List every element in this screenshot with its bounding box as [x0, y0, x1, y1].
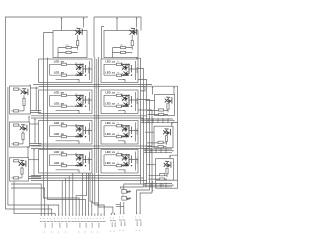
- svg-text:x: x: [68, 218, 69, 220]
- svg-text:x: x: [100, 218, 101, 220]
- svg-text:x: x: [47, 218, 48, 220]
- svg-text:xx: xx: [117, 103, 119, 105]
- svg-text:xxxxx: xxxxx: [135, 67, 138, 74]
- svg-text:xxxx: xxxx: [91, 223, 94, 229]
- svg-text:x: x: [43, 218, 44, 220]
- svg-text:xx: xx: [122, 195, 124, 197]
- svg-text:xx: xx: [117, 72, 119, 74]
- svg-text:x: x: [75, 218, 76, 220]
- svg-text:x: x: [90, 218, 91, 220]
- svg-text:xx: xx: [62, 61, 64, 63]
- svg-text:xx: xx: [62, 103, 64, 105]
- svg-text:xxxxx: xxxxx: [135, 158, 138, 165]
- svg-text:x: x: [64, 218, 65, 220]
- svg-text:xxxxx: xxxxx: [87, 67, 90, 74]
- svg-text:LED_xx: LED_xx: [105, 132, 115, 136]
- svg-text:x: x: [135, 217, 136, 219]
- svg-text:xx: xx: [62, 163, 64, 165]
- svg-text:xxxx: xxxx: [78, 223, 81, 229]
- svg-text:x: x: [57, 218, 58, 220]
- svg-text:x: x: [71, 218, 72, 220]
- svg-text:xx: xx: [117, 92, 119, 94]
- svg-text:x: x: [50, 218, 51, 220]
- svg-text:xx: xx: [62, 72, 64, 74]
- svg-text:xx: xx: [62, 123, 64, 125]
- svg-text:x: x: [54, 218, 55, 220]
- svg-text:x: x: [84, 218, 85, 220]
- svg-text:xx: xx: [117, 123, 119, 125]
- svg-text:x: x: [81, 218, 82, 220]
- svg-text:x: x: [94, 218, 95, 220]
- svg-text:xxxx: xxxx: [119, 221, 122, 227]
- svg-text:x: x: [103, 218, 104, 220]
- svg-text:xxxx: xxxx: [58, 223, 61, 229]
- svg-text:xx: xx: [62, 134, 64, 136]
- svg-text:xxxx: xxxx: [97, 223, 100, 229]
- svg-text:x: x: [40, 218, 41, 220]
- svg-text:LED_xx: LED_xx: [105, 60, 115, 64]
- svg-text:x: x: [123, 217, 124, 219]
- svg-text:xxxx: xxxx: [136, 221, 139, 227]
- svg-text:LED_xx: LED_xx: [105, 102, 115, 106]
- svg-text:x: x: [87, 218, 88, 220]
- svg-text:x: x: [97, 218, 98, 220]
- svg-text:xxxx: xxxx: [159, 184, 165, 187]
- svg-text:xx: xx: [62, 92, 64, 94]
- svg-text:xxxx: xxxx: [84, 223, 87, 229]
- svg-text:x: x: [78, 218, 79, 220]
- svg-text:xxxx: xxxx: [139, 221, 142, 227]
- svg-text:xxxx: xxxx: [65, 223, 68, 229]
- svg-text:LED_xx: LED_xx: [105, 121, 115, 125]
- svg-text:x: x: [61, 218, 62, 220]
- svg-text:x: x: [113, 217, 114, 219]
- svg-text:xxxxx: xxxxx: [87, 98, 90, 105]
- svg-text:x: x: [110, 217, 111, 219]
- svg-text:xx: xx: [62, 152, 64, 154]
- svg-text:xxxx: xxxx: [44, 223, 47, 229]
- svg-text:LED_xx: LED_xx: [105, 91, 115, 95]
- svg-text:xx: xx: [117, 61, 119, 63]
- svg-text:xxxxx: xxxxx: [87, 129, 90, 136]
- svg-text:x: x: [119, 217, 120, 219]
- svg-text:xx: xx: [117, 163, 119, 165]
- svg-text:xxxx: xxxx: [113, 222, 116, 228]
- svg-text:xxxxx: xxxxx: [87, 158, 90, 165]
- svg-text:xxxxx: xxxxx: [135, 129, 138, 136]
- svg-text:xxxxx: xxxxx: [135, 98, 138, 105]
- svg-text:xxxx: xxxx: [110, 222, 113, 228]
- svg-text:xx: xx: [117, 134, 119, 136]
- svg-text:xxxx: xxxx: [51, 223, 54, 229]
- svg-text:xxxx: xxxx: [123, 221, 126, 227]
- svg-text:LED_xx: LED_xx: [105, 71, 115, 75]
- svg-text:x: x: [139, 217, 140, 219]
- svg-text:LED_xx: LED_xx: [105, 150, 115, 154]
- svg-text:LED_xx: LED_xx: [105, 161, 115, 165]
- svg-text:xx: xx: [117, 152, 119, 154]
- svg-text:xx: xx: [122, 188, 124, 190]
